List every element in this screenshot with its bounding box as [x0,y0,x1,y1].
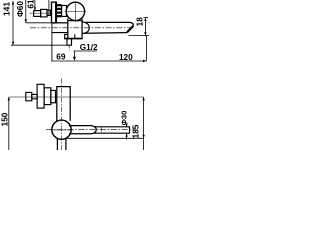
extension line handle top [48,0,50,16]
spout plan bottom line [69,133,91,135]
svg-text:G1/2: G1/2 [80,43,98,52]
svg-text:120: 120 [119,53,133,62]
spout aerator face [127,26,133,32]
body bottom edge [64,38,82,40]
dim 18 bottom extension [129,35,150,37]
ball plan horizontal centerline [51,129,74,131]
vertical centerline dashed [61,79,63,151]
handle box3 [51,90,56,102]
handle centerline [30,12,52,14]
svg-text:150: 150 [0,112,9,126]
spout plan centerline [46,129,136,131]
inlet stub G1/2 [67,39,72,46]
svg-text:69: 69 [56,53,66,62]
body [67,19,69,39]
svg-text:Φ60: Φ60 [16,1,25,17]
svg-text:185: 185 [131,124,140,138]
dim line 61 [34,0,36,11]
spout centerline [30,27,134,29]
arrow at right end [143,60,146,62]
inlet boss [65,34,68,38]
ball centerline horizontal [65,10,87,12]
dim line 141 [12,1,14,45]
leader vertical with arrow [73,51,75,58]
spout bottom line [84,32,128,35]
handle end cap [26,92,32,100]
svg-text:Φ30: Φ30 [120,111,129,126]
inlet centerline dashed [68,45,70,50]
dim 18 top extension [143,17,148,19]
handle lever end [34,11,41,17]
baseline dimension line 69/120 [51,60,146,62]
svg-text:18: 18 [136,17,145,27]
handle box2 [44,88,51,105]
dim line 185 [143,97,145,150]
ball plan circle [52,120,71,139]
neck [62,6,67,17]
handle stem [47,10,51,15]
ball housing circle [66,2,84,20]
dim line phi30 upper [126,125,128,127]
extension line flange bottom / pipe top [26,22,68,24]
spout plan round cap [91,126,96,134]
extension 185 bottom [66,137,143,139]
dim line 150 [8,97,10,150]
spout joint bulge [83,22,90,34]
inlet pipe left line [56,138,58,150]
inlet pipe right line [65,138,67,150]
bonnet ridges [57,4,62,6]
dim line phi30 lower [126,133,128,139]
ball centerline vertical [74,2,76,22]
supply pipe from wall [56,22,67,24]
handle axis line with extensions [9,96,144,98]
svg-text:141: 141 [2,2,12,16]
wall line [51,23,53,61]
extension right vertical [145,36,147,61]
handle neck [32,94,37,98]
spout top line [84,22,134,25]
spout tip box [94,127,130,133]
wall flange [52,2,57,23]
body plan [57,87,70,122]
leader underline G1/2 [73,50,97,52]
extension line stub bottom [11,44,67,46]
cap cross tick [101,128,103,132]
dim line phi60 [25,0,27,23]
handle cross piece [37,84,44,108]
handle connector [41,9,47,17]
spout plan top line [69,125,91,127]
dim line 18 [144,18,146,36]
